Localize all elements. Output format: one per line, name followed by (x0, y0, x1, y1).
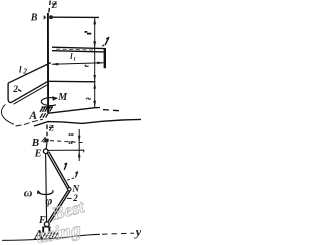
ground hatching at A (42, 232, 58, 239)
arrow left (l1) (52, 63, 58, 66)
rod 1 top edge (52, 47, 105, 48)
svg-text:1: 1 (73, 57, 76, 63)
flat bar 2 bottom edge (11, 81, 49, 103)
svg-text:B: B (31, 137, 39, 149)
shaft V1 (B to A) (47, 13, 49, 113)
label A (bottom fig) (33, 227, 43, 242)
wire H1 top arm from B (53, 16, 99, 18)
arrow down at H5 (93, 75, 96, 81)
small dimension line (right, x=79.2) (78, 129, 80, 161)
label A (top figure) (28, 110, 37, 122)
freehand ground curve (left) (2, 105, 15, 125)
svg-text:M: M (57, 92, 68, 103)
svg-text:за: за (67, 131, 75, 138)
label 1 with leader (105, 37, 109, 45)
joint N (68, 188, 71, 191)
arrow up below H5 (93, 82, 96, 88)
dimension line l1 (horizontal) (52, 63, 104, 64)
rod 1 dashed centerline (56, 48, 93, 51)
label B (bottom) (31, 137, 39, 149)
baseline dashed extension (103, 110, 120, 111)
label Z (top) (51, 0, 58, 10)
rod 1 end bar (104, 48, 106, 68)
bearing A box (bottom fig) (43, 227, 49, 233)
arrow down to B leader level (78, 136, 81, 142)
svg-text:зе: зе (67, 139, 74, 146)
label omega (24, 185, 33, 199)
arrow down at baseline (93, 101, 96, 108)
label Z (bottom fig) (48, 123, 54, 133)
rod 1 bottom edge (52, 51, 104, 52)
axis z (dashed, bottom fig) (46, 125, 48, 138)
svg-text:l: l (19, 65, 22, 75)
bearing hatch at B (bottom) (44, 137, 46, 142)
bearing wall at B (47, 13, 49, 22)
bearing A hatching (below line) (40, 113, 48, 118)
ground line (bottom fig) (2, 234, 100, 240)
svg-text:ω: ω (24, 185, 33, 199)
tiny mark near baseline (86, 98, 91, 99)
svg-text:2: 2 (22, 66, 27, 75)
axis z (dashed) (49, 1, 50, 13)
arrow up (dim l top) (93, 18, 96, 25)
arrow down (dim l bottom) (93, 41, 96, 47)
shaft (bottom fig) segments (46, 142, 47, 227)
bearing wedge at B (44, 15, 47, 20)
omega arrowhead (37, 190, 41, 194)
flat bar 2 end cap (8, 83, 11, 102)
label 2 with leader (bottom fig) (72, 193, 78, 203)
omega rotation arc (38, 190, 53, 194)
node B (dot) (49, 15, 53, 19)
small mark below l1 line (85, 65, 88, 67)
label F (38, 215, 46, 226)
node B dot (bottom) (45, 139, 49, 143)
label M (57, 92, 68, 103)
label l1 (70, 52, 76, 63)
label y axis (134, 224, 142, 239)
torque M arrowhead (52, 96, 58, 101)
baseline (sloped) (49, 108, 101, 114)
wire H5 (extension of bar joint) (49, 80, 96, 83)
ground dashed extension (102, 233, 134, 234)
svg-text:Z: Z (51, 0, 58, 10)
full-width rule (34, 119, 141, 126)
svg-text:E: E (34, 148, 42, 159)
hinge F (circle) (44, 222, 49, 227)
flat bar 2 lower shade edge (14, 85, 48, 104)
label l (dim) (85, 32, 92, 34)
label phi (45, 194, 52, 208)
label B (30, 13, 38, 24)
torque M arc (41, 98, 56, 106)
flat bar 2 top edge (8, 63, 51, 84)
bearing A hatching (above line) (40, 107, 53, 112)
svg-text:B: B (30, 13, 38, 24)
arrow up to E line level (78, 151, 81, 158)
extension line from E (48, 150, 84, 152)
dimension line V2 (vertical) (94, 17, 96, 107)
label l (link 1) (64, 163, 67, 170)
link 2 (N to F, double line) (48, 191, 69, 223)
watermark (35, 196, 87, 245)
arrow right (l1) (97, 62, 103, 65)
label l2 (19, 65, 27, 76)
link 1 (E to N, double line) (47, 152, 70, 190)
svg-text:2: 2 (12, 85, 18, 95)
svg-text:y: y (134, 224, 141, 239)
hinge E (circle) (43, 149, 48, 154)
stacked tiny labels (67, 131, 75, 146)
label N (71, 184, 80, 194)
label E (34, 148, 42, 159)
label 2 with leader (12, 85, 18, 95)
label 1 with leader (bottom fig) (75, 172, 78, 178)
dashed leader right of B (50, 141, 84, 143)
